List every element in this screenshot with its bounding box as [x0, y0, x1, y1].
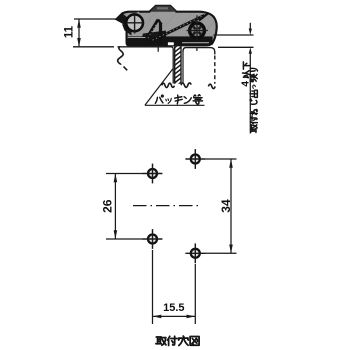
top tab: [150, 6, 176, 12]
mounting hole H4 (bottom right): [185, 243, 205, 263]
panel tick B: [196, 48, 198, 51]
svg-text:34: 34: [219, 199, 233, 213]
svg-text:11: 11: [64, 25, 76, 38]
mounting hole H2 (top right): [185, 149, 205, 169]
mounting flange (bottom bar): [127, 36, 213, 45]
mounting surface (left): [118, 47, 174, 84]
break line: [118, 47, 128, 71]
dimension 4 max (screw protrusion): [241, 23, 252, 134]
extension line (catch bottom): [214, 34, 254, 36]
body hatch texture: [133, 12, 214, 38]
catch lip (left beak): [117, 14, 128, 28]
mounting hole H3 (bottom left): [143, 229, 163, 249]
spring arm: [146, 13, 209, 45]
dimension 34: [205, 159, 237, 253]
screw S1 (left, crosshair): [126, 13, 144, 34]
catch body U1 (side view, grey section): [117, 6, 217, 46]
dimension 11 (catch height): [64, 19, 117, 47]
note: mounting screw protrusion: [250, 68, 258, 132]
top tab highlight: [157, 7, 168, 9]
svg-text:26: 26: [101, 199, 115, 213]
dark wedge under left screw: [122, 24, 132, 36]
dimension 15.5: [153, 250, 196, 324]
screw S2 (right, crosshair): [187, 15, 208, 41]
panel tick A: [157, 47, 159, 52]
hidden screw (dashed) S2 shank: [183, 48, 215, 89]
mounting surface (right): [218, 46, 254, 48]
mounting hole H1 (top left): [143, 164, 163, 184]
label packing etc.: [155, 95, 202, 105]
break curls (shank): [162, 83, 191, 88]
title: mounting hole diagram: [156, 336, 199, 345]
svg-text:15.5: 15.5: [163, 302, 184, 314]
leader line (packing): [145, 68, 205, 105]
dimension 26: [101, 174, 144, 240]
screw shank section (packing area): [173, 41, 183, 89]
mechanism base (dark mass): [140, 31, 166, 45]
centerline: [133, 205, 199, 207]
